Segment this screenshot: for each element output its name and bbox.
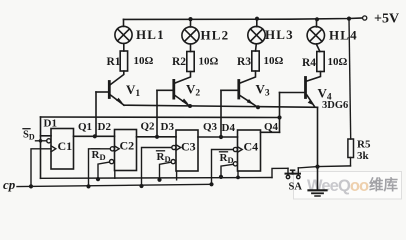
bubble clock C2: [110, 147, 114, 151]
wire reset riser to SA: [272, 168, 288, 177]
wire RD C2: [98, 162, 110, 179]
svg-text:HL2: HL2: [201, 28, 230, 43]
node cp-C4: [209, 182, 213, 186]
wire cp to C1 clock: [31, 149, 51, 187]
node emitter V3: [256, 105, 260, 109]
wire Q4 stub: [261, 131, 280, 133]
wire lamp3 to R3: [255, 44, 258, 51]
wire Q3-D4: [198, 136, 238, 138]
wire C2 bottom leg: [114, 171, 116, 179]
transistor V1 emitter: [111, 95, 125, 105]
wire C3 bottom leg: [176, 171, 178, 180]
lamp HL4: [307, 27, 324, 44]
wire rail to lamp HL2: [190, 19, 192, 27]
svg-text:SA: SA: [289, 182, 303, 193]
switch SA stem: [292, 170, 294, 173]
svg-text:10Ω: 10Ω: [199, 56, 219, 68]
transistor Q V3 base bar: [237, 81, 240, 99]
switch SA left drop: [287, 168, 289, 175]
bubble RD C3: [171, 160, 175, 164]
wire Q3 base riser: [220, 90, 222, 137]
wire reset rail: [41, 177, 273, 180]
svg-text:D2: D2: [98, 121, 112, 133]
svg-text:Q4: Q4: [264, 121, 279, 133]
svg-text:HL3: HL3: [265, 27, 294, 42]
transistor Q V4 base bar: [304, 78, 307, 98]
svg-text:+5V: +5V: [374, 12, 399, 27]
node Q2: [155, 135, 159, 139]
wire feedback left drop: [40, 117, 42, 178]
clock triangle C3: [176, 145, 181, 151]
node SD feedback junction: [39, 139, 43, 143]
wire +5V top rail: [124, 18, 363, 19]
wire cp to C4 clock: [212, 150, 234, 185]
wire cp to C3 clock: [142, 148, 172, 187]
svg-text:3k: 3k: [357, 150, 370, 162]
node Q3: [219, 135, 223, 139]
wire Q1 base riser: [95, 92, 97, 136]
wire SA right: [298, 166, 350, 168]
node rail-HL3: [255, 17, 259, 21]
node SA ground: [315, 165, 319, 169]
svg-text:C2: C2: [120, 139, 135, 153]
wire V4 base: [280, 92, 305, 94]
node rail-R5: [347, 17, 351, 21]
svg-text:R2: R2: [172, 56, 186, 68]
wire cp rail: [17, 184, 212, 186]
node cp-C3: [139, 184, 143, 188]
node RD C2: [96, 177, 100, 181]
wire RD C4: [221, 164, 233, 177]
node cp-C1: [29, 184, 33, 188]
switch SA contacts: [286, 175, 289, 178]
wire rail to lamp HL4: [316, 19, 318, 27]
wire rail to lamp HL1: [123, 19, 125, 26]
svg-text:3DG6: 3DG6: [322, 100, 348, 111]
node cp-C2: [86, 184, 90, 188]
wire lamp1 to R1: [123, 44, 125, 52]
svg-text:RD: RD: [92, 149, 106, 162]
terminal +5V: [363, 16, 367, 20]
lamp HL2: [182, 27, 199, 44]
transistor Q V2 base bar: [172, 80, 175, 98]
transistor V4 emitter: [307, 95, 315, 107]
wire emitter rail: [124, 105, 318, 107]
wire R5 bottom: [350, 158, 352, 166]
switch SA bar: [286, 173, 301, 175]
svg-text:HL4: HL4: [329, 28, 358, 43]
svg-text:C1: C1: [58, 139, 73, 153]
wire R3 to V3 collector: [240, 71, 255, 83]
wire R4 to V4 collector: [307, 72, 321, 82]
flip-flop C3 box: [176, 130, 198, 171]
svg-text:R1: R1: [107, 56, 121, 68]
flip-flop C4 box: [238, 130, 261, 171]
resistor R4: [317, 52, 324, 72]
svg-text:R3: R3: [237, 56, 251, 68]
svg-text:V2: V2: [186, 82, 200, 99]
svg-text:R5: R5: [357, 139, 371, 151]
svg-text:Q2: Q2: [141, 121, 156, 133]
svg-text:Q3: Q3: [203, 121, 218, 133]
bubble RD C2: [110, 160, 114, 164]
wire V2 base: [157, 89, 173, 91]
wire RD C3: [160, 162, 172, 180]
svg-text:D3: D3: [161, 121, 175, 133]
resistor R5: [348, 139, 354, 158]
svg-text:RD: RD: [220, 152, 234, 165]
resistor R1: [120, 51, 127, 71]
node Q4 feedback: [277, 115, 281, 119]
wire R5 to +5V: [349, 19, 351, 139]
clock triangle C2: [115, 146, 120, 152]
wire D1 stub: [41, 135, 52, 137]
ground: [309, 189, 327, 191]
svg-text:10Ω: 10Ω: [328, 56, 348, 68]
svg-text:D4: D4: [222, 122, 236, 134]
svg-text:D1: D1: [44, 118, 57, 130]
svg-text:10Ω: 10Ω: [134, 55, 154, 67]
wire C4 bottom leg: [237, 171, 239, 178]
transistor Q V1 base bar: [108, 82, 111, 98]
bubble clock C3: [172, 145, 176, 149]
node RD C3: [157, 178, 161, 182]
wire R1 to V1 collector: [111, 71, 124, 85]
svg-text:C4: C4: [244, 140, 259, 154]
wire lamp4 to R4: [316, 44, 320, 52]
svg-text:维库: 维库: [369, 176, 398, 194]
svg-text:10Ω: 10Ω: [264, 55, 284, 67]
flip-flop C2 box: [115, 130, 137, 171]
svg-text:SD: SD: [23, 130, 35, 142]
transistor V2 emitter: [175, 96, 190, 107]
node RD C4: [219, 175, 223, 179]
wire rail to lamp HL3: [256, 19, 258, 27]
wire V3 base: [221, 89, 238, 91]
flip-flop C1 box: [51, 129, 74, 170]
wire lamp2 to R2: [190, 44, 192, 52]
transistor V3 emitter: [240, 96, 258, 108]
wire Q4 feedback top: [41, 116, 280, 119]
wire Q2-D3: [137, 136, 177, 138]
wire cp to C2 clock: [89, 149, 111, 187]
svg-text:C3: C3: [181, 140, 196, 154]
resistor R2: [187, 52, 194, 72]
svg-text:V3: V3: [256, 82, 270, 99]
bubble SD C1: [47, 139, 51, 143]
lamp HL3: [248, 26, 265, 43]
svg-text:RD: RD: [157, 151, 171, 164]
clock triangle C1: [51, 146, 56, 152]
node rail-HL2: [188, 17, 192, 21]
svg-text:WeeQoo: WeeQoo: [307, 177, 369, 195]
svg-text:R4: R4: [302, 57, 316, 69]
clock triangle C4: [238, 147, 243, 153]
svg-text:cp: cp: [3, 177, 16, 192]
resistor R3: [252, 51, 259, 71]
wire emitter rail down to ground: [317, 107, 319, 190]
bubble clock C4: [233, 147, 237, 151]
watermark box: [294, 172, 402, 200]
wire Q4 riser: [279, 93, 281, 133]
node rail-HL4: [315, 17, 319, 21]
node Q1: [93, 134, 97, 138]
lamp HL1: [115, 26, 132, 43]
svg-text:HL1: HL1: [136, 27, 165, 42]
wire Q1-D2: [74, 135, 115, 137]
svg-text:Q1: Q1: [78, 121, 92, 133]
wire V1 base: [96, 91, 108, 93]
wire SD set input C1: [36, 140, 47, 142]
svg-text:V1: V1: [126, 82, 140, 99]
node emitter V2: [188, 104, 192, 108]
wire Q2 base riser: [156, 90, 158, 137]
wire R2 to V2 collector: [175, 72, 190, 84]
bubble RD C4: [233, 162, 237, 166]
switch SA right drop: [297, 168, 299, 176]
